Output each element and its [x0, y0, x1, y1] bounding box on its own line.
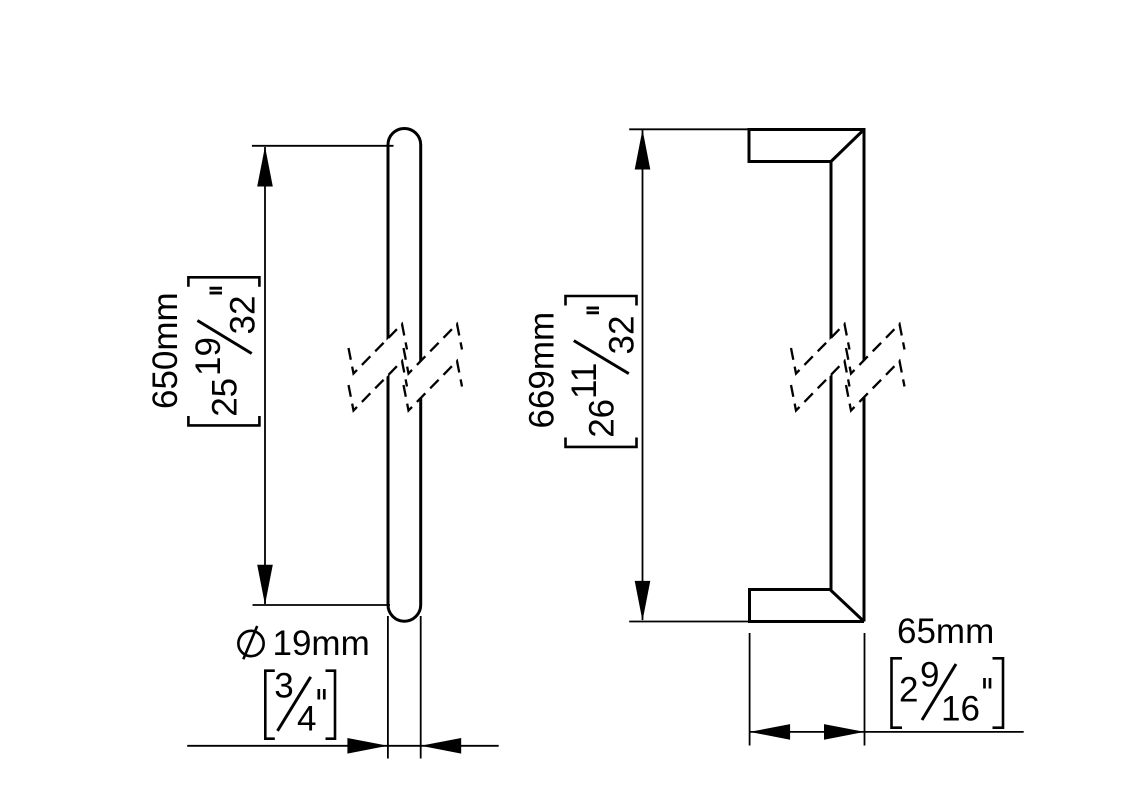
break cut-out band left: [795, 324, 846, 412]
650mm dimension extension line top: [252, 145, 394, 147]
bracket ] of [3/4"]: [326, 671, 336, 739]
break symbol over inner edge, lower polyline: [791, 361, 850, 411]
handle side view inner edge: [830, 162, 833, 590]
669mm dimension line: [642, 130, 644, 620]
bracket ] of [25 19/32"] (rotated, top): [188, 277, 259, 287]
669mm dimension extension line top: [629, 128, 750, 130]
65mm dimension extension line left: [749, 633, 751, 746]
fraction slash (rotated): [197, 321, 251, 354]
19mm arrow pointing left: [421, 738, 462, 754]
bracket [ of [25 19/32"] (rotated, bottom): [188, 416, 259, 425]
handle bar outline (capsule): [388, 128, 421, 621]
669mm dimension extension line bottom: [629, 621, 750, 623]
inch mark ticks: [983, 678, 986, 689]
svg-text:65mm: 65mm: [897, 612, 994, 651]
669mm arrow up: [635, 130, 651, 170]
break symbol over outer edge, lower polyline: [846, 361, 905, 411]
65mm arrow pointing right: [824, 724, 865, 740]
svg-text:32: 32: [603, 316, 642, 355]
break symbol over left edge, lower polyline: [349, 361, 408, 411]
19mm arrow pointing right: [347, 738, 388, 754]
handle side view bottom leg: [750, 590, 865, 622]
svg-text:26: 26: [583, 399, 622, 438]
break symbol over right edge, upper polyline: [404, 324, 463, 374]
svg-text:11: 11: [565, 363, 604, 399]
svg-text:650mm: 650mm: [146, 292, 185, 409]
650mm arrow down: [257, 565, 273, 605]
svg-text:32: 32: [224, 296, 263, 335]
19mm dimension line: [187, 745, 499, 747]
bracket ] of [2 9/16"]: [993, 658, 1004, 727]
650mm dimension line: [264, 147, 266, 604]
669mm arrow down: [635, 581, 651, 621]
inch mark ticks (rotated): [587, 307, 600, 310]
break symbol over inner edge, upper polyline: [791, 324, 850, 374]
bracket [ of [3/4"]: [265, 671, 275, 739]
break cut-out band left: [353, 324, 404, 412]
svg-text:19mm: 19mm: [273, 624, 370, 663]
break symbol (dashed zigzag) over left edge, upper polyline: [349, 324, 408, 374]
65mm dimension line: [750, 731, 1024, 733]
break cut-out band right: [850, 324, 901, 412]
diameter symbol slash: [243, 626, 257, 659]
diameter symbol circle: [238, 631, 263, 656]
fraction slash: [278, 677, 311, 731]
break symbol over right edge, lower polyline: [404, 361, 463, 411]
svg-text:9: 9: [920, 655, 939, 694]
svg-text:3: 3: [274, 667, 293, 706]
inch mark ticks: [317, 689, 320, 700]
svg-text:2: 2: [899, 670, 918, 709]
65mm dimension extension line right: [864, 633, 866, 746]
bracket [ of [26 11/32"] (rotated, bottom): [566, 438, 637, 447]
bracket ] of [26 11/32"] (rotated, top): [566, 296, 637, 306]
svg-text:669mm: 669mm: [523, 312, 562, 429]
break cut-out band right: [408, 324, 459, 412]
19mm dimension extension line right: [420, 616, 422, 759]
19mm dimension extension line left: [387, 616, 389, 759]
fraction slash (rotated): [574, 341, 629, 374]
svg-text:16: 16: [941, 689, 980, 728]
650mm dimension extension line bottom: [253, 604, 391, 606]
bracket [ of [2 9/16"]: [892, 658, 903, 727]
650mm arrow up: [257, 147, 273, 187]
inch mark ticks (rotated): [210, 287, 223, 290]
handle side view outline: top leg: [749, 130, 864, 622]
65mm arrow pointing left: [750, 724, 791, 740]
fraction slash: [922, 664, 956, 720]
svg-text:25: 25: [206, 378, 245, 417]
break symbol over outer edge, upper polyline: [846, 324, 905, 374]
svg-text:4: 4: [297, 699, 316, 738]
svg-text:19: 19: [189, 337, 228, 376]
